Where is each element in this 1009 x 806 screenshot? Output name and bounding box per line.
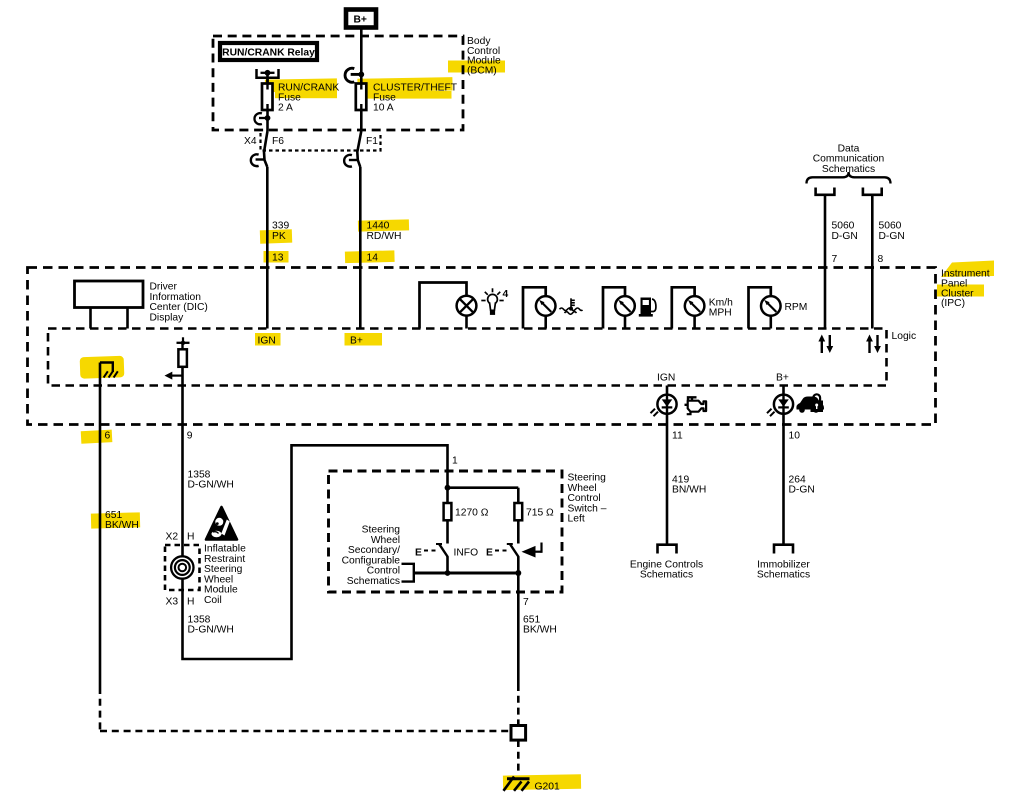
svg-text:E: E	[415, 547, 422, 558]
svg-text:Schematics: Schematics	[640, 570, 693, 581]
svg-text:B+: B+	[350, 335, 363, 346]
svg-text:7: 7	[832, 254, 838, 265]
svg-text:1270 Ω: 1270 Ω	[455, 508, 489, 519]
svg-text:Schematics: Schematics	[757, 570, 810, 581]
svg-text:BK/WH: BK/WH	[523, 625, 557, 636]
svg-text:(IPC): (IPC)	[941, 298, 965, 309]
svg-text:D-GN/WH: D-GN/WH	[188, 480, 234, 491]
svg-text:X2: X2	[166, 532, 179, 543]
svg-text:X3: X3	[166, 597, 179, 608]
svg-text:10: 10	[789, 431, 801, 442]
svg-text:Left: Left	[568, 514, 585, 525]
svg-text:6: 6	[105, 431, 111, 442]
svg-text:F6: F6	[272, 136, 284, 147]
svg-text:BK/WH: BK/WH	[105, 520, 139, 531]
svg-text:(BCM): (BCM)	[467, 66, 497, 77]
svg-text:715 Ω: 715 Ω	[526, 508, 554, 519]
svg-text:IGN: IGN	[258, 335, 276, 346]
svg-text:G201: G201	[535, 782, 560, 793]
svg-text:10 A: 10 A	[373, 102, 394, 113]
svg-text:13: 13	[272, 253, 284, 264]
svg-text:INFO: INFO	[454, 547, 479, 558]
svg-text:D-GN: D-GN	[789, 485, 815, 496]
svg-text:H: H	[187, 532, 194, 543]
svg-text:RUN/CRANK Relay: RUN/CRANK Relay	[222, 47, 315, 58]
svg-text:11: 11	[672, 431, 683, 442]
svg-text:D-GN: D-GN	[879, 231, 905, 242]
svg-text:RPM: RPM	[785, 302, 808, 313]
svg-text:2 A: 2 A	[278, 102, 293, 113]
svg-text:B+: B+	[354, 15, 367, 26]
svg-text:B+: B+	[776, 373, 789, 384]
svg-text:1: 1	[452, 456, 458, 467]
svg-text:PK: PK	[272, 231, 286, 242]
svg-text:D-GN/WH: D-GN/WH	[188, 625, 234, 636]
svg-text:MPH: MPH	[709, 307, 732, 318]
svg-text:7: 7	[523, 597, 529, 608]
svg-text:8: 8	[878, 254, 884, 265]
svg-text:4: 4	[503, 289, 509, 300]
svg-text:E: E	[486, 547, 493, 558]
svg-text:IGN: IGN	[657, 373, 675, 384]
svg-text:Logic: Logic	[892, 331, 917, 342]
svg-text:Schematics: Schematics	[822, 164, 875, 175]
svg-text:Coil: Coil	[204, 595, 222, 606]
svg-text:D-GN: D-GN	[832, 231, 858, 242]
svg-text:F1: F1	[366, 136, 378, 147]
svg-text:X4: X4	[244, 136, 257, 147]
svg-text:BN/WH: BN/WH	[672, 485, 706, 496]
svg-text:H: H	[187, 597, 194, 608]
svg-text:9: 9	[187, 431, 193, 442]
svg-text:Schematics: Schematics	[347, 576, 400, 587]
svg-text:RD/WH: RD/WH	[367, 231, 402, 242]
svg-text:14: 14	[367, 253, 379, 264]
svg-text:Display: Display	[150, 312, 185, 323]
